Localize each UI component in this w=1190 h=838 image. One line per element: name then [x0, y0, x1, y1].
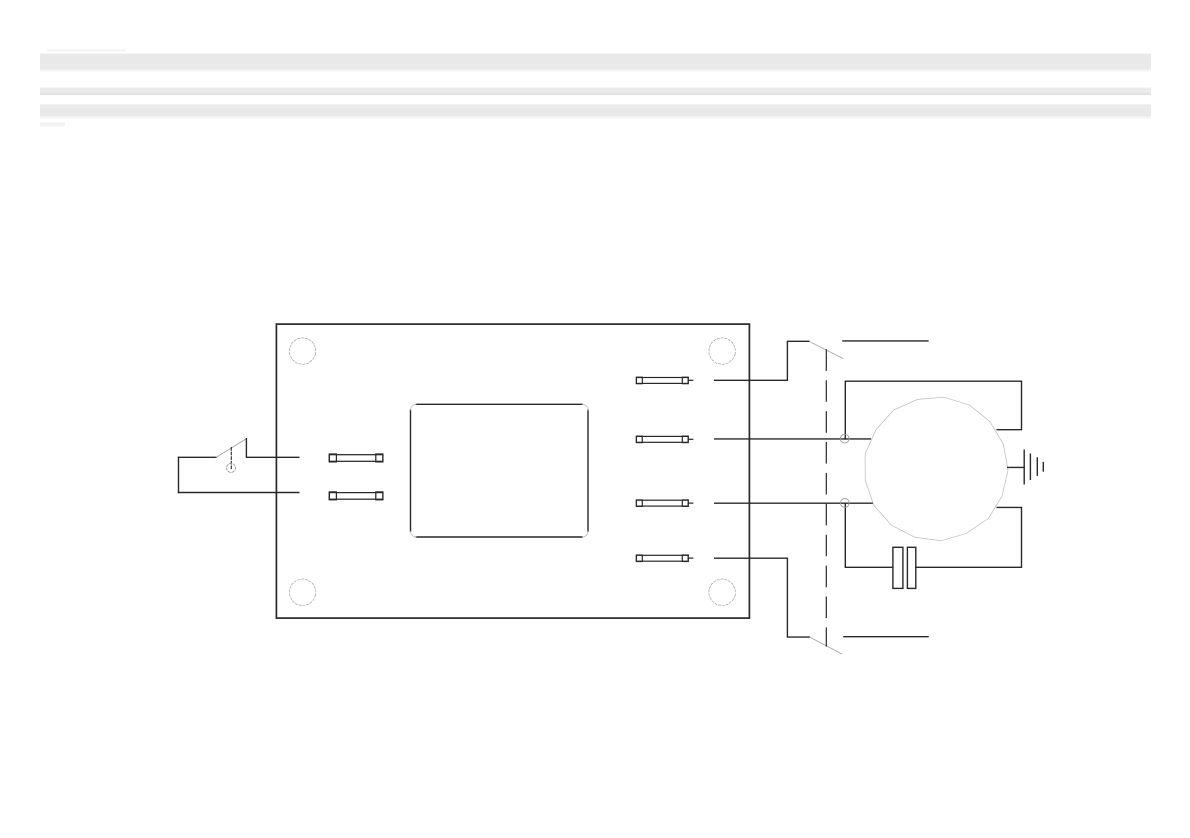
header greeked text line (faint): [47, 49, 126, 52]
wire: motor to ground lead: [1008, 466, 1024, 468]
wire: net W4 (board to switch S3): [715, 558, 810, 637]
mounting hole H2 (top-right): [709, 338, 735, 365]
capacitor C1 plate 2: [907, 547, 915, 588]
wire: net W2 (board to motor terminal T1): [715, 438, 871, 440]
wire: motor lower winding loop (left part): [845, 503, 893, 567]
fuse link F6 (right col 4): [636, 555, 692, 562]
switch S2 blade (top right, open): [809, 342, 842, 359]
motor M1 body (faceted circle): [865, 397, 1008, 541]
header greeked bar 2: [40, 88, 1151, 94]
switch S1 (door switch, left): [179, 439, 299, 493]
fuse link F3 (right col 1): [636, 377, 692, 384]
wire: S1 lower lead into board: [179, 492, 299, 494]
wire: S1 upper lead into board: [179, 456, 217, 458]
S1 plunger link (dashed): [230, 448, 232, 469]
switch S3 blade (bottom right, open): [810, 637, 842, 654]
mounting hole H4 (bottom-right): [709, 579, 735, 606]
S1 plunger button (dashed circle): [227, 463, 236, 472]
capacitor C1 plate 1: [893, 547, 903, 588]
mounting hole H3 (bottom-left): [290, 579, 316, 606]
PCB board outline: [276, 324, 749, 618]
S1 blade (open contact): [216, 439, 246, 458]
header greeked word (faint): [40, 123, 65, 127]
fuse link F5 (right col 3): [636, 500, 692, 507]
wire: motor upper winding loop: [845, 381, 1021, 439]
wire: net W1 (board to switch S2): [715, 341, 810, 380]
mechanical gang link (dashed) between S2 and S3: [825, 350, 827, 646]
wire: net W3 (board to motor terminal T2): [715, 502, 873, 504]
header greeked bar 3: [40, 104, 1151, 116]
header greeked bar 1: [40, 54, 1151, 70]
wire: S1 right contact riser: [246, 439, 298, 458]
mounting hole H1 (top-left): [290, 338, 316, 365]
wire: S2 fixed contact: [843, 340, 928, 342]
fuse link F4 (right col 2): [636, 436, 692, 443]
wire: S3 fixed contact: [844, 636, 928, 638]
fuse link F2 (left lower): [329, 492, 383, 500]
fuse link F1 (left upper): [329, 454, 383, 462]
relay K1 (module on board): [411, 404, 589, 537]
motor M1 terminal T1: [840, 434, 849, 443]
wire: S1 left leg down: [178, 457, 180, 492]
ground symbol (chassis, rotated): [1024, 450, 1043, 484]
motor M1 terminal T2: [840, 499, 849, 508]
wire: motor lower winding loop (right part): [916, 507, 1022, 567]
